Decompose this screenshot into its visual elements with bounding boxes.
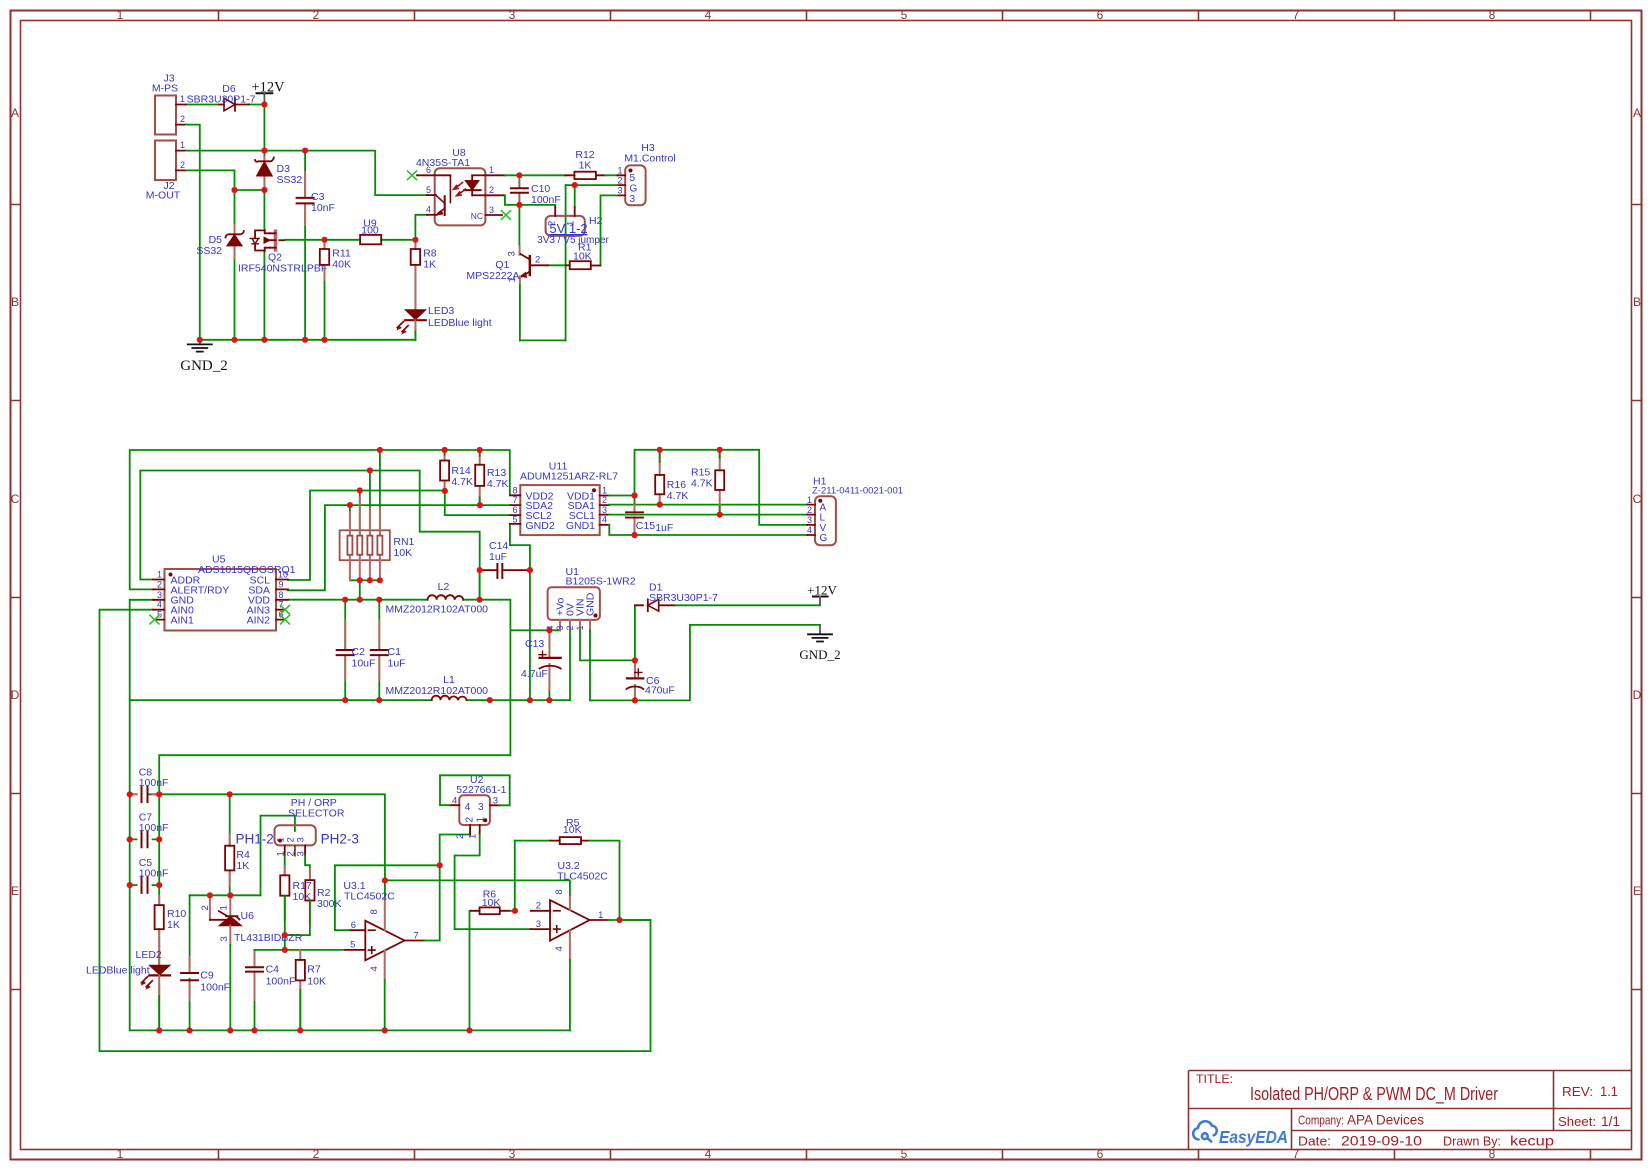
svg-text:10: 10 (278, 570, 288, 580)
inductor L2 MMZ2012R102AT000 (386, 581, 489, 616)
wire selector pin3 to R2 (305, 856, 310, 881)
svg-text:1: 1 (602, 485, 607, 495)
svg-text:7: 7 (512, 495, 517, 505)
wire J2 pin2 to D5 branch (186, 170, 235, 190)
svg-text:7: 7 (1293, 8, 1300, 22)
svg-text:100nF: 100nF (139, 822, 169, 834)
wire right gnd rail to GND_2 (590, 625, 820, 701)
wire +V drop from +Vo rail to supply line y755 and cap stack (159, 630, 510, 794)
power +12V (top) (251, 80, 285, 105)
svg-text:1K: 1K (167, 919, 180, 931)
wire U11 GND2 to C14 right to left rail (510, 524, 530, 700)
svg-text:2: 2 (536, 901, 541, 912)
svg-text:D: D (11, 688, 20, 702)
svg-text:10K: 10K (563, 824, 582, 836)
svg-text:3: 3 (219, 936, 230, 941)
svg-text:PH2-3: PH2-3 (321, 832, 359, 847)
svg-text:TITLE:: TITLE: (1196, 1074, 1233, 1086)
op-amp U3.2 TLC4502C (531, 860, 609, 1030)
wire RN1 bottom tie (350, 580, 380, 599)
wire VDD rail y599.7 (288, 570, 560, 630)
svg-text:C4: C4 (266, 964, 280, 976)
junction dots top circuit (261, 101, 267, 107)
svg-text:1: 1 (117, 1147, 124, 1161)
svg-text:E: E (1633, 884, 1641, 898)
wire J2 pin1 to U8 pin5 (186, 151, 427, 196)
diode D3 zener (255, 157, 302, 190)
wire H3 pin2 net / H2 pin1 (520, 185, 618, 340)
svg-text:3: 3 (509, 8, 516, 22)
no-connect X U8 pin3 (502, 211, 511, 220)
svg-text:AIN1: AIN1 (171, 615, 195, 627)
header H2 jumper (537, 207, 609, 246)
svg-text:10uF: 10uF (352, 658, 376, 670)
svg-text:3: 3 (489, 205, 494, 215)
capacitor C15 (626, 505, 673, 535)
wire U3.2 output to right drop (609, 919, 651, 921)
wire U1 pin1 GND to right rail (589, 631, 591, 701)
svg-text:C13: C13 (525, 638, 544, 650)
svg-text:G: G (820, 533, 828, 544)
svg-text:B: B (11, 295, 19, 309)
svg-text:6: 6 (1097, 1147, 1104, 1161)
capacitor C2 (337, 600, 376, 700)
svg-text:2: 2 (200, 905, 211, 910)
svg-text:1uF: 1uF (388, 658, 406, 670)
svg-text:10K: 10K (482, 897, 501, 909)
wire R5 left down to pin2 node (514, 841, 516, 911)
svg-text:8: 8 (1489, 1147, 1496, 1161)
svg-text:1: 1 (617, 166, 622, 176)
svg-text:8: 8 (369, 909, 380, 914)
EasyEDA logo (1193, 1121, 1288, 1147)
resistor R14 (440, 450, 473, 491)
svg-text:3: 3 (478, 802, 484, 813)
svg-text:4.7K: 4.7K (691, 478, 713, 490)
svg-text:5: 5 (630, 173, 636, 184)
wire R17 bottom to node (284, 896, 286, 950)
resistor U9 100 (360, 218, 381, 245)
svg-text:Date:: Date: (1298, 1135, 1331, 1149)
wire R5 right down to output node (590, 841, 620, 920)
svg-text:4.7K: 4.7K (487, 478, 509, 490)
wire opamp supply line y880 (385, 880, 570, 897)
svg-text:1: 1 (507, 277, 518, 282)
wire VIN to C6/D1 node (580, 631, 635, 661)
svg-text:10nF: 10nF (311, 202, 335, 214)
wire VDD2 rail y450 with ALERT pullup leg (130, 450, 510, 589)
wire R12 to H3 pin1 (605, 174, 617, 176)
svg-text:G: G (630, 184, 638, 195)
svg-text:C: C (11, 492, 20, 506)
capacitor C1 (371, 600, 406, 700)
header H3 M1.Control (617, 142, 675, 205)
wire selector pin1 to R17 (284, 856, 286, 876)
svg-text:GND_2: GND_2 (180, 358, 228, 374)
svg-text:Isolated PH/ORP & PWM DC_M Dri: Isolated PH/ORP & PWM DC_M Driver (1250, 1084, 1498, 1105)
wire D1 to +12V (675, 604, 820, 606)
wire U8 pin1 to node (505, 174, 520, 176)
svg-text:1K: 1K (236, 860, 249, 872)
svg-text:SS32: SS32 (196, 245, 222, 257)
svg-text:4: 4 (157, 600, 162, 610)
wire D1 node up (634, 605, 636, 660)
capacitor C9 (181, 895, 230, 1030)
wire SDA1 to H1 pin1 (609, 504, 807, 506)
svg-text:100nF: 100nF (266, 976, 296, 988)
svg-text:LEDBlue light: LEDBlue light (86, 965, 150, 977)
resistor R4 (225, 794, 250, 895)
svg-text:SS32: SS32 (277, 174, 303, 186)
svg-text:ADUM1251ARZ-RL7: ADUM1251ARZ-RL7 (520, 471, 618, 483)
svg-text:GND_2: GND_2 (799, 647, 840, 662)
diode D5 zener (196, 225, 243, 258)
svg-text:5227661-1: 5227661-1 (456, 784, 506, 796)
svg-text:TLC4502C: TLC4502C (344, 891, 395, 903)
svg-text:C15: C15 (636, 520, 655, 532)
svg-text:4: 4 (602, 515, 607, 525)
svg-text:1: 1 (180, 140, 185, 150)
wire H3 pin3 to R1 (601, 195, 618, 265)
op-amp U3.1 TLC4502C (343, 880, 424, 1030)
svg-text:1: 1 (598, 910, 603, 921)
svg-text:5: 5 (512, 515, 517, 525)
svg-text:3: 3 (630, 194, 636, 205)
svg-text:C2: C2 (352, 646, 366, 658)
svg-text:kecup: kecup (1510, 1133, 1554, 1149)
svg-text:C9: C9 (200, 970, 214, 982)
svg-text:7: 7 (413, 931, 418, 942)
IC U5 ADS1015QDGSRQ1 (153, 554, 296, 631)
capacitor C10 (511, 175, 561, 206)
svg-text:100nF: 100nF (200, 982, 230, 994)
svg-text:100nF: 100nF (139, 868, 169, 880)
svg-text:100nF: 100nF (139, 777, 169, 789)
resistor R16 (655, 450, 688, 505)
svg-text:SELECTOR: SELECTOR (288, 808, 345, 820)
svg-text:EasyEDA: EasyEDA (1219, 1127, 1288, 1147)
wire VDD1 net (609, 450, 807, 525)
svg-text:1: 1 (467, 834, 478, 839)
svg-text:5: 5 (426, 185, 431, 195)
wire U2 pin1 to U3.2 +input (455, 835, 531, 930)
svg-text:2: 2 (455, 834, 466, 839)
TITLE BLOCK (1189, 1071, 1632, 1150)
svg-text:4: 4 (426, 205, 431, 215)
svg-text:2: 2 (464, 817, 475, 823)
svg-text:GND2: GND2 (526, 520, 555, 532)
resistor network RN1 10K (340, 450, 415, 580)
junction dots bottom circuit (127, 791, 133, 797)
svg-text:3: 3 (617, 186, 622, 196)
no-connect X U5 pin6 (281, 615, 290, 624)
svg-text:B1205S-1WR2: B1205S-1WR2 (566, 576, 636, 588)
svg-text:3: 3 (509, 1147, 516, 1161)
wire cap stack / R10 / LED2 chain (158, 794, 160, 1030)
svg-text:5: 5 (901, 1147, 908, 1161)
svg-text:2: 2 (180, 114, 185, 124)
ground GND_2 (top) (180, 340, 228, 374)
svg-text:2: 2 (617, 176, 622, 186)
capacitor C4 (246, 950, 295, 1031)
wire link y190 (235, 189, 265, 191)
svg-text:2: 2 (313, 1147, 320, 1161)
svg-text:MMZ2012R102AT000: MMZ2012R102AT000 (386, 604, 489, 616)
svg-text:APA Devices: APA Devices (1347, 1112, 1424, 1128)
svg-text:C1: C1 (388, 646, 402, 658)
connector J3 M-PS (152, 73, 186, 135)
svg-text:L2: L2 (438, 581, 450, 593)
IC U11 ADUM1251ARZ-RL7 (510, 461, 618, 536)
capacitor C5 (130, 857, 169, 893)
svg-text:1uF: 1uF (655, 522, 673, 534)
wire +12V node down through D3 Q2 to gnd rail (263, 105, 265, 340)
resistor R17 (280, 866, 312, 920)
svg-text:GND: GND (585, 592, 597, 616)
junction dots mid circuit (377, 447, 383, 453)
svg-text:10K: 10K (393, 547, 412, 559)
svg-text:GND1: GND1 (566, 520, 595, 532)
resistor R13 (475, 450, 508, 505)
shunt reference U6 TL431BIDBZR (200, 895, 303, 1030)
svg-text:SBR3U30P1-7: SBR3U30P1-7 (649, 592, 718, 604)
DC-DC U1 B1205S-1WR2 (545, 566, 600, 631)
svg-text:+12V: +12V (807, 583, 837, 598)
svg-text:300K: 300K (317, 898, 342, 910)
wire SDA net (288, 505, 511, 590)
resistor R10 (155, 896, 187, 946)
header U2 5227661-1 (450, 774, 507, 839)
wire U3.1 pin6 feedback line (335, 865, 440, 930)
svg-text:TL431BIDBZR: TL431BIDBZR (234, 932, 303, 944)
power +12V (mid) (807, 583, 837, 606)
svg-text:R7: R7 (307, 964, 321, 976)
diode D6 (187, 83, 256, 111)
svg-text:4N35S-TA1: 4N35S-TA1 (416, 157, 470, 169)
svg-text:1: 1 (180, 94, 185, 104)
svg-text:A: A (11, 106, 19, 120)
svg-text:C: C (1633, 492, 1642, 506)
wire SCL1 to H1 pin2 (609, 514, 807, 516)
svg-text:1.1: 1.1 (1600, 1083, 1618, 1099)
svg-text:+12V: +12V (251, 80, 285, 96)
svg-text:TLC4502C: TLC4502C (557, 871, 608, 883)
svg-text:LED3: LED3 (428, 305, 454, 317)
svg-text:8: 8 (279, 590, 284, 600)
wire gate rail y239.8 (285, 215, 427, 240)
svg-text:1: 1 (476, 817, 487, 823)
header H1 Z-211-0411-0021-001 (807, 476, 903, 546)
svg-text:PH1-2: PH1-2 (236, 832, 274, 847)
svg-text:2019-09-10: 2019-09-10 (1341, 1133, 1422, 1149)
header PH/ORP selector (236, 797, 359, 857)
svg-text:2: 2 (535, 255, 540, 266)
svg-text:8: 8 (554, 889, 565, 894)
no-connect X U5 pin5 (150, 615, 159, 624)
svg-text:7: 7 (1293, 1147, 1300, 1161)
svg-text:A: A (1633, 106, 1641, 120)
wire SCL net (288, 491, 510, 581)
wire U3.1 output up to U2 pin2 (424, 828, 470, 941)
ground GND_2 (mid) (799, 625, 840, 662)
svg-text:4: 4 (705, 8, 712, 22)
resistor R5 (515, 817, 590, 844)
wire supply line y794 to U3.1 pin8 (148, 794, 385, 899)
svg-text:Drawn By:: Drawn By: (1443, 1135, 1501, 1149)
svg-text:1: 1 (807, 495, 812, 505)
resistor R6 (470, 889, 511, 1031)
svg-text:3: 3 (536, 919, 541, 930)
wire U6 node to selector pin2 (261, 816, 295, 896)
resistor R15 (691, 450, 724, 515)
svg-text:1: 1 (117, 8, 124, 22)
svg-text:IRF540NSTRLPBF: IRF540NSTRLPBF (238, 263, 327, 275)
svg-text:3: 3 (507, 251, 518, 256)
svg-text:4: 4 (465, 802, 471, 813)
diode D1 (635, 582, 718, 612)
wire GND left vertical (bottom) (130, 700, 570, 1030)
svg-text:6: 6 (351, 920, 356, 931)
svg-text:5: 5 (157, 610, 162, 620)
svg-text:470uF: 470uF (645, 685, 675, 697)
svg-text:SBR3U30P1-7: SBR3U30P1-7 (187, 94, 256, 106)
capacitor C6 polarized (627, 660, 675, 700)
svg-text:9: 9 (279, 579, 284, 589)
svg-text:M-OUT: M-OUT (146, 190, 181, 202)
svg-text:Sheet:: Sheet: (1558, 1115, 1596, 1129)
svg-text:1/1: 1/1 (1601, 1113, 1620, 1129)
svg-text:1uF: 1uF (489, 551, 507, 563)
svg-text:6: 6 (512, 505, 517, 515)
svg-text:M1.Control: M1.Control (624, 153, 675, 165)
svg-text:B: B (1633, 295, 1641, 309)
wire R6 to U3.2 pin2 node (511, 910, 515, 912)
wire J3 pin2 down to gnd rail (186, 125, 200, 340)
no-connect X U5 pin7 (281, 605, 290, 614)
svg-text:2: 2 (807, 505, 812, 515)
svg-text:2: 2 (489, 185, 494, 195)
wire U2 pin4 loop to pin3 (440, 775, 510, 805)
svg-text:5: 5 (901, 8, 908, 22)
wire D5 branch down to gnd rail (234, 190, 236, 340)
transistor Q1 MPS2222A (466, 246, 548, 340)
svg-text:6: 6 (1097, 8, 1104, 22)
capacitor C14 (480, 540, 530, 578)
svg-text:1: 1 (157, 570, 162, 580)
capacitor C7 (130, 812, 169, 848)
svg-text:4: 4 (705, 1147, 712, 1161)
wire AIN0 long net to U3.2 output (100, 610, 651, 1051)
resistor R1 (548, 241, 601, 269)
no-connect X U8 pin6 (408, 171, 417, 180)
svg-text:LEDBlue light: LEDBlue light (428, 317, 492, 329)
svg-text:3: 3 (602, 505, 607, 515)
svg-text:M-PS: M-PS (152, 83, 178, 95)
svg-text:1K: 1K (579, 160, 592, 172)
svg-text:3: 3 (807, 515, 812, 525)
svg-text:2: 2 (313, 8, 320, 22)
svg-text:8: 8 (1489, 8, 1496, 22)
svg-text:REV:: REV: (1562, 1085, 1593, 1099)
svg-text:NC: NC (471, 211, 483, 221)
svg-text:1K: 1K (423, 259, 436, 271)
svg-text:3: 3 (296, 837, 307, 842)
resistor R8 (411, 240, 437, 340)
wire GND pin3 U5 to left rail (130, 600, 570, 700)
inductor L1 MMZ2012R102AT000 (386, 674, 489, 700)
svg-text:4: 4 (554, 946, 565, 951)
transistor Q2 IRF540NSTRLPBF (238, 230, 327, 275)
svg-text:40K: 40K (332, 259, 351, 271)
svg-text:5V 1-2: 5V 1-2 (549, 221, 587, 236)
svg-text:5: 5 (350, 940, 355, 951)
svg-text:3: 3 (555, 625, 565, 630)
resistor R12 (519, 149, 605, 179)
connector J2 M-OUT (146, 140, 186, 202)
resistor R2 (305, 869, 341, 924)
svg-text:10K: 10K (307, 976, 326, 988)
wire J3 pin1 to +12V node (186, 104, 264, 106)
wire +input line y950 (255, 949, 346, 951)
svg-text:2: 2 (180, 160, 185, 170)
wire Q1 collector from C10 node (518, 205, 520, 246)
wire R2 bottom to R17 node (285, 901, 310, 936)
resistor R7 (296, 950, 326, 1031)
svg-text:Z-211-0411-0021-001: Z-211-0411-0021-001 (812, 486, 903, 497)
svg-text:4.7uF: 4.7uF (521, 668, 548, 680)
svg-text:4: 4 (452, 796, 457, 807)
svg-text:4.7K: 4.7K (451, 476, 473, 488)
svg-text:4.7K: 4.7K (667, 490, 689, 502)
svg-text:8: 8 (512, 485, 517, 495)
wire U6 node line (190, 894, 261, 896)
svg-text:3: 3 (493, 796, 498, 807)
capacitor C3 (297, 151, 335, 340)
LED2 (86, 946, 170, 1030)
LED3 (396, 305, 491, 340)
wire H2 pin2 from C10 node (519, 205, 555, 207)
svg-text:D: D (1633, 688, 1642, 702)
wire gnd rail top (200, 339, 416, 341)
svg-text:AIN2: AIN2 (247, 615, 271, 627)
svg-text:4: 4 (807, 525, 812, 535)
wire U1 pin3 0V to left rail (569, 631, 571, 701)
svg-text:2: 2 (157, 579, 162, 589)
capacitor C8 (130, 767, 169, 803)
wire ADDR net (140, 471, 479, 600)
svg-text:1: 1 (489, 165, 494, 175)
svg-text:3: 3 (157, 590, 162, 600)
svg-text:10K: 10K (573, 250, 592, 262)
svg-text:U6: U6 (241, 910, 255, 922)
svg-text:2: 2 (602, 495, 607, 505)
svg-text:100: 100 (361, 225, 379, 237)
wire U8 pin2 to C10 bottom node (505, 195, 520, 205)
svg-text:4: 4 (369, 966, 380, 971)
capacitor C13 polarized (521, 630, 561, 700)
svg-text:LED2: LED2 (136, 949, 162, 961)
svg-text:MMZ2012R102AT000: MMZ2012R102AT000 (386, 685, 489, 697)
wire GND1 to H1 pin4 (609, 525, 807, 535)
svg-text:6: 6 (426, 165, 431, 175)
svg-text:E: E (11, 884, 19, 898)
svg-text:Company:: Company: (1298, 1114, 1344, 1128)
svg-text:3V3 / V5 jumper: 3V3 / V5 jumper (537, 235, 609, 246)
resistor R11 (320, 240, 351, 340)
optocoupler U8 4N35S-TA1 (416, 147, 505, 225)
svg-text:1: 1 (219, 905, 230, 910)
